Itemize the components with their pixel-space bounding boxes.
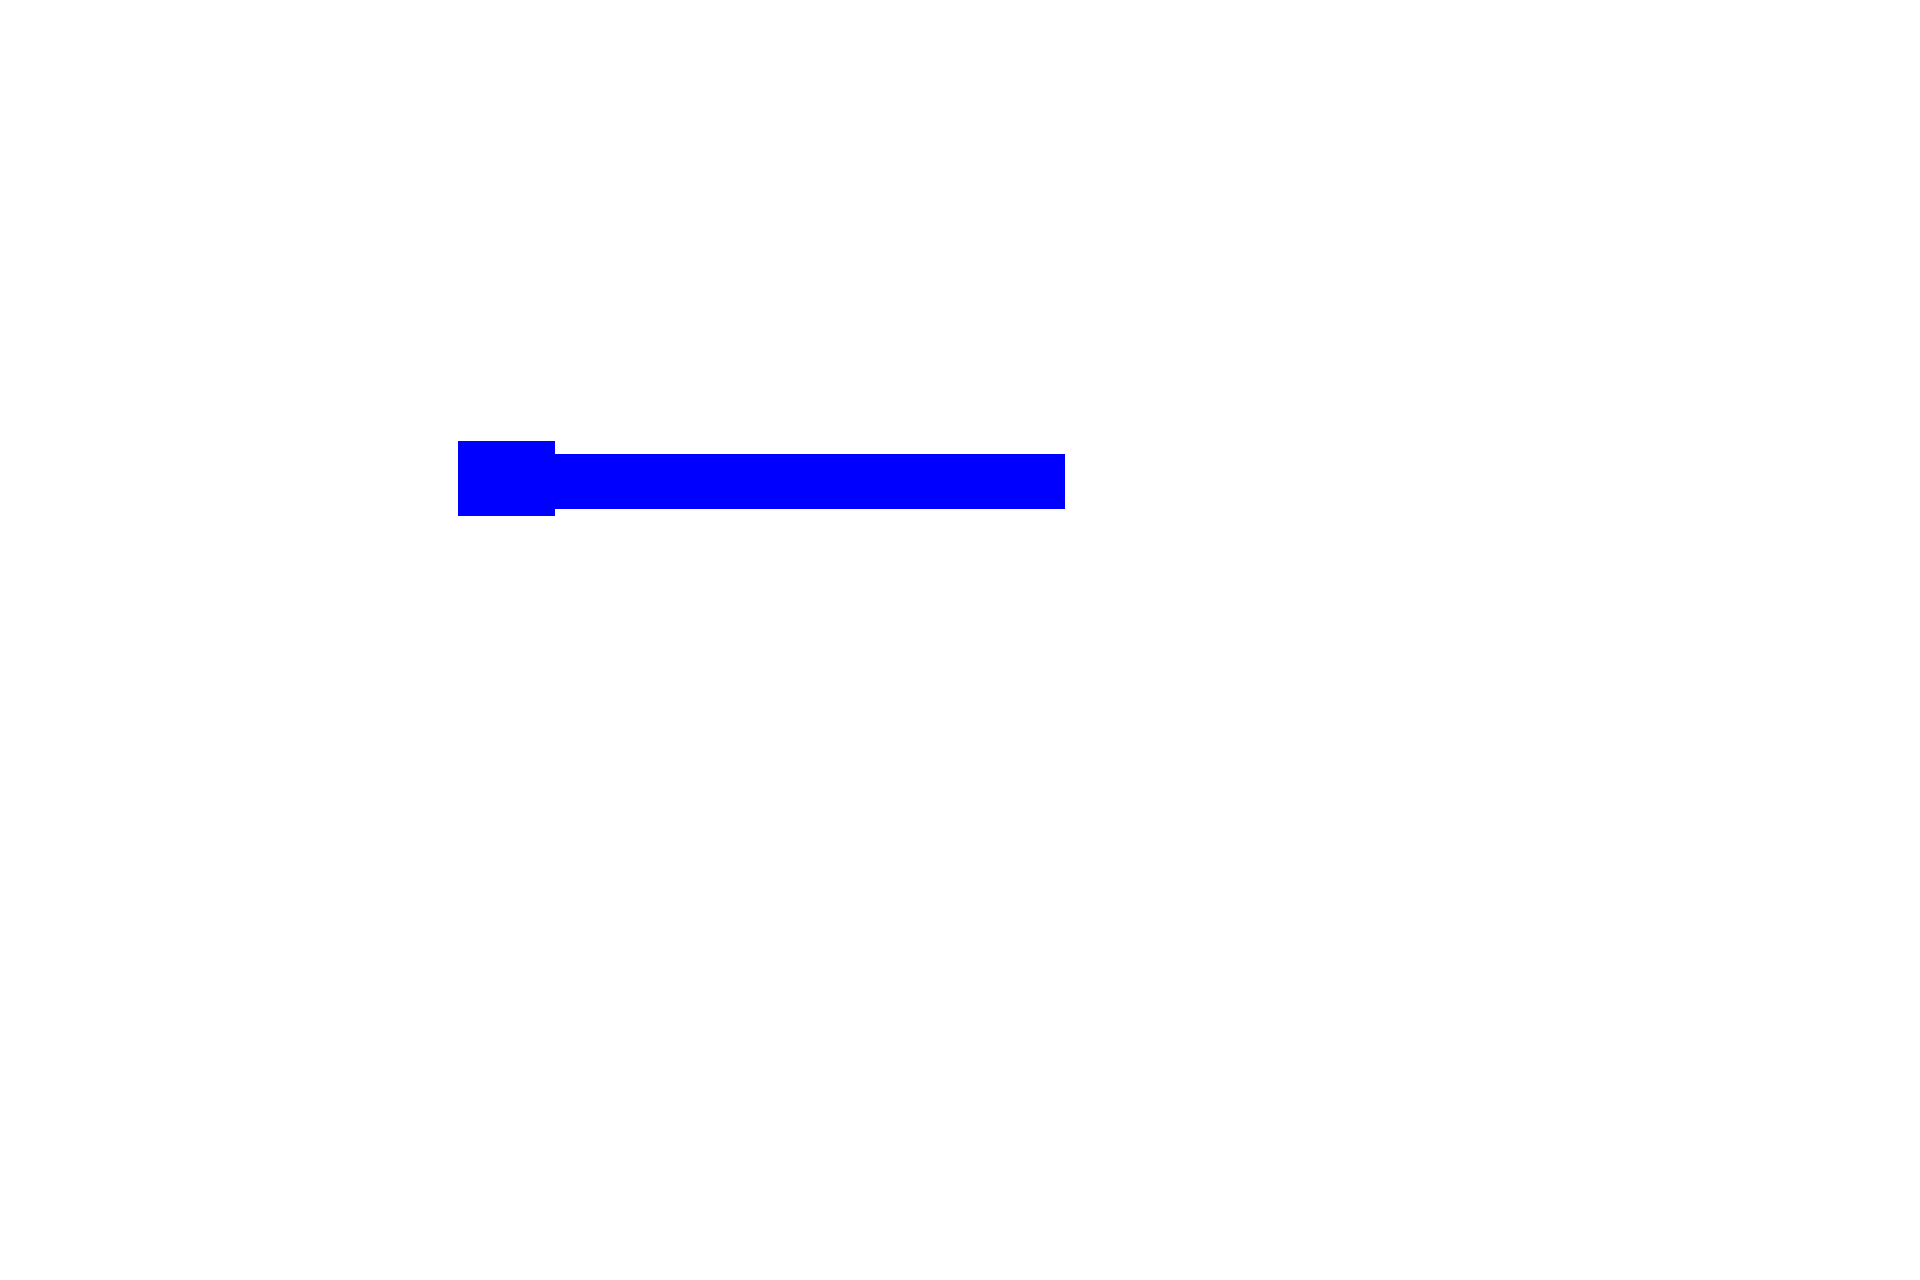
blue horizontal bar bbox=[555, 454, 1065, 509]
blue square block (left cap) bbox=[458, 441, 555, 516]
